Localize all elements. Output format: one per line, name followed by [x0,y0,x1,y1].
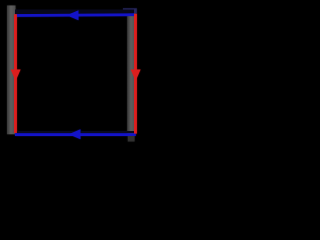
soft halo layer [7,6,141,142]
diagram: square loop with arrows [0,0,150,150]
sharp core layer [7,6,141,142]
